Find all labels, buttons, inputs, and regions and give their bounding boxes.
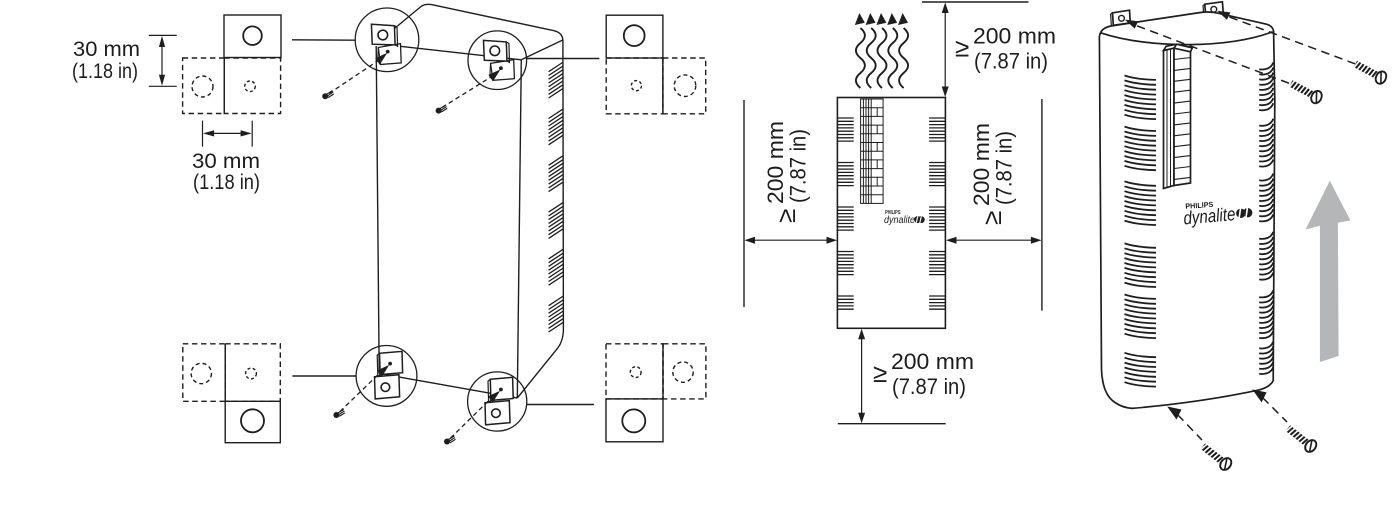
device top face	[378, 4, 563, 59]
right dim arrow line	[950, 239, 1039, 241]
detail BL dashed hole small	[246, 368, 257, 379]
pointer line BL detail to device	[292, 375, 356, 377]
svg-text:200 mm: 200 mm	[891, 349, 974, 374]
detail TR bracket hole	[624, 25, 645, 46]
dim 30mm horizontal: arrowhead right	[241, 130, 252, 136]
svg-text:(7.87 in): (7.87 in)	[786, 129, 811, 203]
detail BL solid bracket box	[225, 401, 280, 442]
detail BL bracket hole	[241, 409, 264, 432]
tab left dashed guide to screw	[1137, 26, 1291, 84]
bracket TL plate	[371, 24, 395, 45]
bracket BR lower plate	[485, 401, 510, 425]
screw BL dashed guide	[340, 373, 380, 411]
right dim arrowhead left	[946, 237, 957, 244]
bracket TR plate edge	[506, 42, 509, 63]
right clearance reference line	[1041, 99, 1043, 311]
tab left arrowhead	[1125, 20, 1138, 29]
bracket BL pin dot	[388, 362, 392, 366]
dynalite roundel small	[914, 216, 925, 223]
dim 30mm horizontal: left tick	[202, 121, 204, 147]
left dim arrowhead left	[744, 237, 755, 244]
detail BR bracket hole	[622, 409, 645, 432]
device body outline	[1099, 12, 1274, 408]
bracket BL upper plate edge	[377, 353, 380, 376]
terminal strip row lines	[1174, 58, 1191, 60]
detail TR solid bracket box	[606, 15, 663, 58]
bracket TL pin dot	[386, 50, 390, 54]
bottom left dashed guide	[1178, 415, 1203, 441]
bottom clearance reference line	[838, 423, 946, 425]
screw BL	[333, 409, 345, 418]
right vent curved lines	[1259, 62, 1273, 69]
left vent arcs	[1125, 76, 1157, 387]
top dim arrowhead down	[942, 87, 949, 98]
bracket BL magnifier circle	[356, 346, 417, 407]
bracket BL upper plate	[380, 351, 403, 374]
terminal strip top cap	[1164, 44, 1193, 52]
bracket BL lower plate	[375, 375, 400, 399]
device vent hatch group 1	[549, 62, 564, 332]
svg-text:(7.87 in): (7.87 in)	[974, 49, 1048, 74]
bracket BR screw arrow	[488, 391, 500, 403]
wavy heat arrows	[856, 28, 865, 88]
bracket TR flange side	[490, 63, 493, 80]
screw bottom left	[1199, 441, 1234, 472]
screw BR	[444, 436, 456, 445]
dim 30mm vertical: arrowhead down	[159, 75, 165, 86]
device right face back edge	[562, 40, 565, 331]
detail BL dashed left box	[183, 344, 225, 402]
bracket BR plate hole	[492, 409, 501, 418]
screw TL	[322, 91, 334, 100]
bracket TR flange plate	[491, 60, 515, 81]
bottom right arrowhead	[1252, 389, 1266, 402]
svg-text:200 mm: 200 mm	[969, 123, 994, 206]
dim 30mm vertical: arrowhead up	[159, 36, 165, 47]
tab right arrowhead	[1217, 11, 1230, 20]
detail TL dashed wall-plate right box	[224, 58, 280, 114]
detail TL dashed hole small	[245, 81, 256, 92]
mounting tab right side edge	[1203, 4, 1206, 17]
device front face top edge	[377, 44, 521, 60]
left dim arrow line	[748, 239, 834, 241]
right vent arcs	[1259, 62, 1273, 374]
bracket BL plate hole	[381, 383, 390, 392]
bracket TL plate hole	[378, 30, 388, 40]
screw TL dashed guide	[329, 61, 378, 94]
svg-text:(7.87 in): (7.87 in)	[892, 374, 966, 399]
bracket TL magnifier circle	[355, 8, 419, 72]
gray arrow	[1306, 181, 1351, 362]
bracket TL flange side	[378, 48, 381, 65]
screw bottom right	[1284, 423, 1319, 454]
bracket BR magnifier circle	[468, 372, 527, 431]
detail TR dashed hole small	[631, 81, 641, 91]
svg-text:30 mm: 30 mm	[192, 150, 260, 173]
terminal strip rows	[1174, 58, 1191, 180]
dim 30mm horizontal: right tick	[251, 121, 253, 147]
left vent slots	[837, 118, 853, 309]
terminal strip left face	[1164, 48, 1175, 188]
screw TR	[436, 105, 448, 114]
mounting tab left	[1113, 10, 1131, 25]
terminal strip left face lines	[1167, 49, 1171, 188]
tab right dashed guide to screw	[1230, 17, 1356, 64]
detail BR solid bracket box	[606, 399, 663, 442]
bottom dim arrowhead up	[858, 329, 865, 340]
pointer line TL detail to device	[292, 39, 355, 41]
right vent slots	[929, 118, 945, 309]
bracket TR plate	[484, 40, 508, 61]
bracket TR screw arrow	[488, 69, 500, 81]
mounting tab right	[1205, 2, 1224, 16]
device right face bottom edge	[517, 331, 563, 398]
dim 30mm vertical: bottom tick	[149, 85, 177, 87]
detail BR dashed hole large	[673, 362, 693, 382]
bottom right dashed guide	[1263, 398, 1288, 423]
svg-text:dynalite: dynalite	[884, 214, 915, 226]
top dim arrowhead up	[942, 2, 949, 13]
bottom dim arrow line	[861, 333, 863, 420]
detail TL bracket hole	[243, 26, 262, 45]
mounting tab right hole	[1211, 6, 1217, 12]
svg-text:(1.18 in): (1.18 in)	[193, 171, 260, 194]
svg-text:200 mm: 200 mm	[973, 24, 1056, 49]
svg-text:≥: ≥	[955, 33, 969, 63]
screw for right tab	[1352, 58, 1388, 85]
svg-text:≥: ≥	[873, 358, 887, 388]
svg-text:(7.87 in): (7.87 in)	[992, 131, 1017, 205]
bracket TL screw arrow	[375, 53, 387, 65]
svg-text:≥: ≥	[977, 211, 1007, 225]
label right clearance (rotated)	[969, 123, 1017, 225]
device front face left edge	[376, 46, 379, 374]
bracket TL flange plate	[378, 44, 401, 65]
detail BL dashed hole large	[191, 363, 211, 383]
bracket TR plate hole	[490, 46, 500, 56]
dim 30mm vertical: top tick	[149, 34, 177, 36]
bottom dim arrowhead down	[858, 413, 865, 424]
detail BL dashed right box	[225, 344, 280, 402]
bracket BR pin dot	[499, 388, 503, 392]
pointer line TR device to detail	[526, 58, 599, 60]
top dim arrow line	[944, 6, 946, 93]
dim 30mm horizontal: arrowhead left	[203, 130, 214, 136]
left dim arrowhead right	[827, 237, 838, 244]
bracket TL plate edge	[394, 26, 397, 47]
label left clearance (rotated)	[763, 121, 811, 223]
dim 30mm horizontal: arrow line	[207, 132, 248, 134]
svg-text:(1.18 in): (1.18 in)	[72, 60, 138, 83]
device front face bottom edge	[379, 374, 517, 399]
pointer line BR device to detail	[527, 404, 594, 406]
detail TL divider line	[223, 58, 225, 114]
detail TR dashed box right	[663, 58, 706, 114]
detail TL dashed hole large	[192, 76, 213, 97]
screw for left tab	[1288, 78, 1324, 105]
detail TL dashed wall-plate left box	[183, 58, 225, 114]
svg-text:30 mm: 30 mm	[73, 38, 140, 61]
bracket BL screw arrow	[377, 365, 389, 377]
svg-text:200 mm: 200 mm	[763, 121, 788, 204]
dim 30mm vertical: arrow line	[161, 40, 163, 82]
mounting tab left side edge	[1111, 13, 1114, 27]
top clearance reference line	[922, 1, 1029, 3]
mounting tab left hole	[1119, 15, 1125, 21]
right vent lines	[929, 117, 945, 119]
detail BR dashed hole small	[630, 367, 641, 378]
bracket BR upper plate edge	[488, 379, 491, 402]
terminal strip front face	[1174, 48, 1191, 185]
screw TR dashed guide	[442, 77, 491, 108]
device front face right edge	[517, 60, 521, 398]
bracket TR magnifier circle	[468, 31, 527, 90]
left clearance reference line	[743, 100, 745, 307]
detail TL solid bracket box	[224, 15, 281, 58]
dynalite roundel	[1236, 207, 1253, 218]
left vent lines	[837, 117, 853, 119]
detail TR dashed hole large	[674, 75, 696, 97]
detail BR divider line	[662, 344, 664, 399]
heat wavy arrows	[855, 13, 908, 88]
bracket TR pin dot	[499, 66, 503, 70]
detail TR dashed box below	[606, 58, 663, 114]
terminal grid block	[861, 99, 884, 203]
vent hatch groups right face	[549, 62, 564, 72]
detail BL divider line	[224, 344, 226, 402]
detail BR dashed right box	[663, 344, 706, 399]
left vent curved lines	[1125, 76, 1157, 80]
bracket BR upper plate	[490, 377, 513, 400]
device front-top edge	[1101, 32, 1273, 45]
detail BR dashed left box	[606, 344, 663, 399]
svg-text:≥: ≥	[771, 209, 801, 223]
front view device outline	[837, 98, 945, 329]
right dim arrowhead right	[1031, 237, 1042, 244]
bottom left arrowhead	[1167, 407, 1181, 420]
screw BR dashed guide	[451, 399, 491, 438]
detail TR divider line	[662, 58, 664, 114]
